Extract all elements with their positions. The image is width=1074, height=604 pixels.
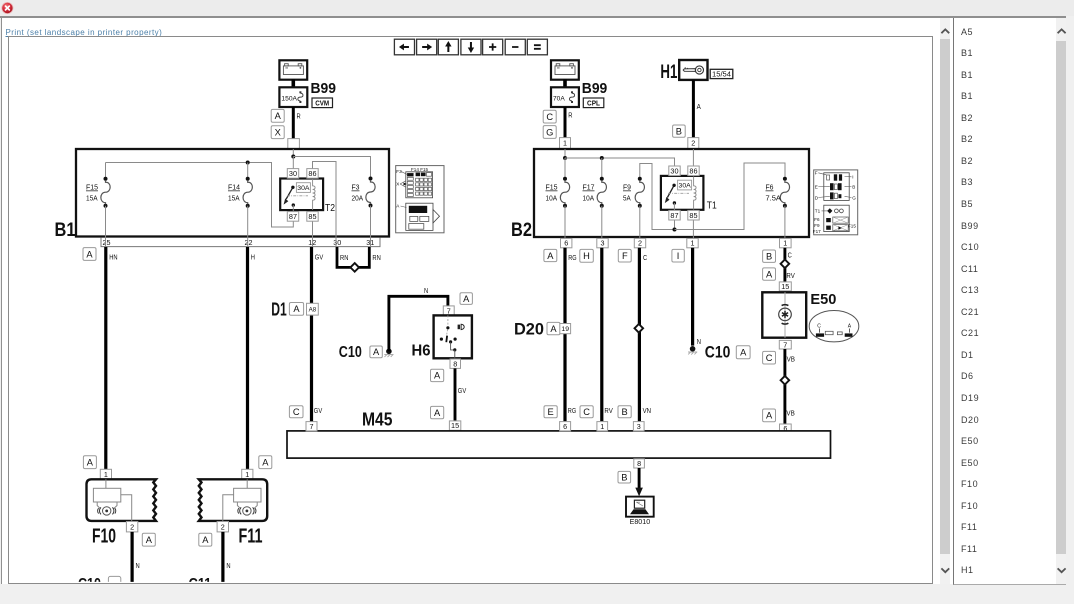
svg-text:F: F bbox=[622, 251, 628, 261]
megafuse 150A B99 bbox=[279, 87, 307, 107]
fuse F14 15A bbox=[228, 163, 252, 247]
svg-text:7: 7 bbox=[783, 340, 787, 349]
svg-text:30: 30 bbox=[333, 238, 341, 247]
svg-text:C: C bbox=[583, 407, 590, 417]
svg-text:N: N bbox=[424, 288, 428, 295]
svg-text:GV: GV bbox=[458, 388, 467, 395]
svg-text:GV: GV bbox=[314, 408, 323, 415]
svg-text:A: A bbox=[202, 535, 209, 545]
svg-text:RN: RN bbox=[372, 255, 380, 262]
connector A (F10 bottom) bbox=[142, 533, 155, 546]
pin 7 E50 bbox=[779, 340, 791, 349]
svg-text:30: 30 bbox=[289, 169, 297, 178]
svg-text:25: 25 bbox=[103, 238, 111, 247]
main diagram scrollbar bbox=[940, 18, 950, 585]
svg-text:C11: C11 bbox=[189, 576, 212, 593]
svg-text:30A: 30A bbox=[297, 185, 310, 192]
connector B (F6 wire) bbox=[763, 250, 776, 262]
svg-text:I: I bbox=[852, 174, 853, 179]
blower motor E50 bbox=[762, 292, 836, 338]
wire relay 86 to pin 30 bbox=[313, 162, 337, 247]
wire battery to fuse B99 bbox=[291, 80, 295, 88]
relay T1 bbox=[661, 166, 717, 220]
svg-text:2: 2 bbox=[130, 522, 134, 531]
svg-text:F9: F9 bbox=[623, 185, 631, 192]
pin 6 M45 bbox=[560, 422, 571, 431]
svg-text:F11: F11 bbox=[239, 525, 263, 547]
fuse F9 5A bbox=[623, 177, 644, 240]
connector A (E50 above) bbox=[763, 268, 776, 280]
svg-text:G: G bbox=[852, 195, 856, 200]
svg-text:F14: F14 bbox=[228, 185, 240, 192]
connector A (C10 right) bbox=[736, 346, 750, 359]
svg-text:F17: F17 bbox=[813, 229, 821, 234]
svg-text:I: I bbox=[677, 251, 680, 261]
svg-text:1: 1 bbox=[245, 470, 249, 479]
svg-text:X: X bbox=[396, 182, 399, 187]
svg-text:5A: 5A bbox=[623, 196, 631, 203]
svg-text:1: 1 bbox=[600, 422, 604, 431]
svg-text:T2: T2 bbox=[325, 203, 335, 214]
battery G (left) bbox=[279, 60, 307, 79]
svg-text:C: C bbox=[293, 407, 300, 417]
wire N from C10 to H6 pin 7 bbox=[389, 288, 448, 351]
pin 1 B2 (F6 branch) bbox=[780, 238, 792, 247]
ground point C10 (right) bbox=[688, 346, 697, 355]
wire battery to fuse B99 right bbox=[563, 80, 567, 88]
svg-text:86: 86 bbox=[689, 166, 697, 175]
connector E (M45 pin6) bbox=[544, 406, 557, 418]
svg-text:H6: H6 bbox=[412, 342, 431, 359]
svg-text:B99: B99 bbox=[582, 80, 608, 97]
toolbar pan/zoom buttons bbox=[394, 39, 547, 55]
svg-text:D20: D20 bbox=[514, 320, 544, 339]
connector G (B99 right) bbox=[543, 126, 556, 139]
wire H1 to relay 86/85 to pin 1 bbox=[692, 149, 694, 240]
svg-text:F15: F15 bbox=[546, 185, 558, 192]
wire C/VN pin2 to M45 pin 3 with splice bbox=[635, 248, 652, 421]
svg-text:CPL: CPL bbox=[587, 100, 601, 107]
svg-text:1: 1 bbox=[783, 239, 787, 248]
wire A from H1 to B2 pin 2 bbox=[693, 80, 701, 139]
svg-text:E50: E50 bbox=[810, 292, 836, 308]
svg-text:B: B bbox=[852, 184, 855, 189]
svg-text:C: C bbox=[766, 353, 773, 363]
svg-text:A: A bbox=[463, 294, 470, 304]
E50 connector face view bbox=[809, 311, 859, 342]
svg-text:3: 3 bbox=[637, 422, 641, 431]
svg-text:C10: C10 bbox=[78, 576, 101, 593]
svg-text:1: 1 bbox=[104, 470, 108, 479]
diagnostic connector E8010 bbox=[626, 497, 654, 526]
svg-text:HN: HN bbox=[109, 255, 117, 262]
svg-text:RV: RV bbox=[786, 273, 795, 280]
fuse F17 10A bbox=[583, 158, 607, 240]
svg-text:2: 2 bbox=[221, 522, 225, 531]
ground C10 (bottom, clipped) bbox=[78, 576, 121, 593]
wire feed to relay 30 bbox=[292, 157, 294, 188]
fuse F15 15A bbox=[86, 163, 110, 247]
svg-text:6: 6 bbox=[564, 239, 568, 248]
connector H (B2 pin3) bbox=[580, 249, 594, 262]
svg-text:A: A bbox=[766, 269, 773, 279]
svg-text:10A: 10A bbox=[583, 196, 595, 203]
wire relay 85 to pin 12 bbox=[312, 221, 314, 247]
svg-text:1: 1 bbox=[563, 139, 567, 148]
svg-text:VN: VN bbox=[643, 408, 651, 415]
wire relay 87 to F9 and F6 bbox=[640, 163, 785, 232]
svg-text:6: 6 bbox=[563, 422, 567, 431]
pin 7 M45 bbox=[306, 422, 317, 431]
svg-text:H: H bbox=[251, 255, 255, 262]
svg-text:30: 30 bbox=[670, 166, 678, 175]
wire GV pin 12 bbox=[312, 247, 324, 422]
connector A (H6 top) bbox=[460, 293, 472, 305]
wire N from F11 to C11 bbox=[223, 532, 231, 583]
svg-text:A: A bbox=[766, 411, 773, 421]
svg-text:A: A bbox=[547, 251, 554, 261]
svg-text:C: C bbox=[788, 253, 792, 260]
svg-text:F9: F9 bbox=[814, 223, 820, 228]
svg-text:E: E bbox=[815, 184, 818, 189]
svg-text:A: A bbox=[697, 104, 701, 111]
connector C (E50 below) bbox=[763, 351, 776, 364]
svg-text:F: F bbox=[815, 170, 818, 175]
pin 2 B2 top bbox=[688, 138, 699, 149]
connector F (B2 pin2) bbox=[618, 249, 631, 262]
wire GV from H6 to M45 pin 15 bbox=[455, 368, 466, 421]
svg-text:F3: F3 bbox=[352, 185, 360, 192]
wire R from B99 to B2 pin 1 bbox=[565, 107, 572, 139]
wire feed to F3 bbox=[293, 157, 370, 179]
svg-text:RN: RN bbox=[340, 255, 348, 262]
svg-text:B1: B1 bbox=[55, 220, 76, 241]
wire HN pin 25 bbox=[106, 247, 118, 469]
ignition switch H1 bbox=[660, 60, 707, 83]
svg-text:7: 7 bbox=[447, 306, 451, 315]
pin 1 F10 bbox=[100, 469, 111, 479]
wire R from B99 to B1 bbox=[292, 107, 295, 140]
svg-text:R: R bbox=[297, 114, 301, 121]
wire RN pins 30-31 with splice bbox=[337, 247, 381, 272]
connector A (C10 left) bbox=[370, 346, 382, 358]
connector B (M45 bottom) bbox=[618, 471, 631, 483]
svg-text:85: 85 bbox=[689, 211, 697, 220]
svg-text:B2: B2 bbox=[511, 220, 532, 241]
inset legend B1 (fusebox layout) bbox=[396, 166, 444, 233]
wire VB from E50 to M45 pin 6 with splice bbox=[781, 349, 796, 424]
fuse F3 20A bbox=[352, 177, 376, 247]
svg-text:A: A bbox=[87, 458, 94, 468]
svg-text:A: A bbox=[146, 535, 153, 545]
svg-text:C10: C10 bbox=[705, 343, 731, 362]
pin 1 F11 bbox=[242, 469, 253, 479]
svg-text:C: C bbox=[546, 112, 553, 122]
svg-text:2: 2 bbox=[638, 239, 642, 248]
svg-text:87: 87 bbox=[289, 212, 297, 221]
pin 3 B2 bbox=[597, 238, 608, 247]
svg-text:70A: 70A bbox=[553, 95, 565, 102]
svg-text:A: A bbox=[275, 111, 282, 121]
label CPL bbox=[583, 98, 604, 108]
connector C (M45 pin7) bbox=[289, 406, 303, 418]
svg-text:A: A bbox=[86, 249, 93, 259]
svg-text:N: N bbox=[136, 563, 140, 570]
svg-text:7: 7 bbox=[310, 422, 314, 431]
connector C (M45 pin1) bbox=[580, 406, 593, 418]
svg-text:E: E bbox=[547, 407, 553, 417]
svg-text:D1: D1 bbox=[271, 300, 287, 320]
svg-text:M45: M45 bbox=[362, 410, 393, 430]
svg-text:F15: F15 bbox=[86, 185, 98, 192]
svg-text:B: B bbox=[621, 407, 627, 417]
pin (B1 top entry) bbox=[288, 139, 300, 150]
connector A (B2 pin6) bbox=[544, 249, 557, 261]
connector D1 (A / A8) bbox=[271, 300, 318, 320]
svg-text:B: B bbox=[766, 252, 772, 262]
pin 2 F10 bbox=[126, 522, 137, 532]
svg-text:B: B bbox=[676, 126, 682, 136]
svg-text:7.5A: 7.5A bbox=[766, 196, 782, 203]
pin 1 B2 bottom bbox=[687, 238, 698, 247]
wire N from F10 to C10 bbox=[132, 532, 140, 583]
svg-text:E8010: E8010 bbox=[630, 517, 651, 526]
connector A (F11 top) bbox=[259, 456, 272, 469]
pin 7 H6 bbox=[443, 306, 454, 316]
svg-text:15A: 15A bbox=[86, 196, 98, 203]
junction unit M45 bbox=[287, 410, 831, 459]
close button bbox=[0, 0, 20, 20]
svg-text:19: 19 bbox=[561, 326, 569, 333]
fusebox B2 bbox=[511, 149, 809, 241]
svg-text:86: 86 bbox=[308, 169, 316, 178]
connector C (B99 right) bbox=[543, 110, 556, 123]
svg-text:VB: VB bbox=[786, 411, 795, 418]
connector A (above M45 pin 15) bbox=[431, 406, 444, 418]
svg-text:10A: 10A bbox=[546, 196, 558, 203]
svg-text:15: 15 bbox=[781, 282, 789, 291]
wire H pin 22 bbox=[248, 247, 256, 469]
svg-text:15: 15 bbox=[451, 421, 459, 430]
svg-text:RG: RG bbox=[568, 408, 576, 415]
ground C10 (left of H6) bbox=[339, 344, 362, 361]
svg-text:RG: RG bbox=[568, 255, 576, 262]
svg-text:A8: A8 bbox=[309, 307, 317, 314]
svg-text:A: A bbox=[434, 408, 441, 418]
svg-text:T1: T1 bbox=[707, 201, 717, 212]
connector A (F11 bottom) bbox=[199, 533, 212, 546]
wire RV pin3 to M45 pin 1 bbox=[602, 248, 613, 421]
pin 1 M45 bbox=[597, 422, 608, 431]
svg-text:B: B bbox=[621, 473, 627, 483]
connector A (H6 below) bbox=[431, 369, 444, 381]
fusebox body computer B1 bbox=[55, 149, 390, 241]
node feed B2 pin 1 bbox=[563, 149, 567, 160]
svg-text:15A: 15A bbox=[228, 196, 240, 203]
pin 6 M45 (right) bbox=[780, 424, 792, 433]
svg-text:CVM: CVM bbox=[315, 100, 329, 107]
megafuse 70A B99 bbox=[551, 87, 579, 107]
connector A (B1 bottom) bbox=[83, 248, 96, 261]
svg-text:X: X bbox=[275, 128, 281, 138]
svg-text:A: A bbox=[293, 304, 300, 314]
svg-text:A: A bbox=[373, 347, 380, 357]
B1 connector strip bbox=[101, 238, 380, 247]
side lamp F11 bbox=[199, 479, 267, 547]
svg-text:H1: H1 bbox=[660, 62, 677, 83]
svg-text:1: 1 bbox=[691, 239, 695, 248]
svg-text:F6: F6 bbox=[814, 217, 820, 222]
connector A (M45 pin6 right) bbox=[763, 409, 776, 422]
connector A (F10 top) bbox=[83, 456, 96, 469]
lighting switch H6 bbox=[412, 315, 472, 359]
svg-text:F15: F15 bbox=[848, 224, 856, 229]
pin 2 F11 bbox=[217, 522, 228, 532]
pin 15 E50 bbox=[779, 282, 791, 291]
svg-text:F10: F10 bbox=[92, 525, 116, 547]
svg-text:VB: VB bbox=[787, 357, 796, 364]
svg-text:N: N bbox=[697, 339, 701, 346]
wire C/RV from B2 pin1 to E50 pin 15 bbox=[781, 248, 795, 282]
pin 1 B2 top bbox=[560, 138, 571, 149]
fuse F15 10A (B2) bbox=[546, 158, 570, 240]
svg-text:30A: 30A bbox=[679, 183, 692, 190]
connector B (M45 pin3) bbox=[618, 406, 631, 418]
svg-text:A: A bbox=[550, 324, 557, 334]
component list panel bbox=[953, 18, 1066, 585]
list scrollbar bbox=[1056, 18, 1066, 585]
connector D20 pin 19 bbox=[514, 320, 571, 339]
svg-text:F17: F17 bbox=[583, 185, 595, 192]
wire to E8010 with arrow bbox=[635, 468, 643, 496]
svg-text:87: 87 bbox=[670, 211, 678, 220]
svg-text:A: A bbox=[434, 371, 441, 381]
node feed B1 (junction from B99) bbox=[291, 149, 295, 159]
connector X (B99 left) bbox=[271, 126, 284, 139]
svg-text:A: A bbox=[740, 348, 747, 358]
wire feed to relay 30 (B2) bbox=[565, 156, 675, 185]
svg-text:T1: T1 bbox=[815, 209, 821, 214]
svg-text:N: N bbox=[226, 563, 230, 570]
side lamp F10 bbox=[87, 479, 157, 547]
connector B (H1 wire) bbox=[673, 125, 686, 137]
connector A (B99 left) bbox=[271, 109, 284, 122]
svg-text:C: C bbox=[643, 255, 647, 262]
svg-text:8: 8 bbox=[453, 359, 457, 368]
svg-text:GV: GV bbox=[315, 255, 324, 262]
label 15/54 bbox=[710, 69, 733, 78]
svg-text:2: 2 bbox=[691, 139, 695, 148]
svg-text:85: 85 bbox=[308, 212, 316, 221]
svg-text:A: A bbox=[262, 458, 269, 468]
pin 8 H6 bbox=[450, 359, 461, 368]
svg-text:G: G bbox=[546, 127, 553, 137]
pin 2 B2 bottom bbox=[634, 238, 645, 247]
inset legend B2 (relay/fuse layout) bbox=[813, 170, 858, 235]
wire N pin1 to ground C10 bbox=[693, 248, 701, 346]
wire relay 87 to F15/F14 feed bbox=[106, 161, 294, 228]
pin 15 M45 bbox=[449, 421, 460, 430]
svg-text:R: R bbox=[568, 113, 572, 120]
pin 6 B2 bbox=[561, 238, 572, 247]
svg-text:15/54: 15/54 bbox=[712, 70, 731, 79]
svg-text:H: H bbox=[583, 251, 590, 261]
svg-text:RV: RV bbox=[604, 408, 613, 415]
wire RG pin6 to M45 pin 6 bbox=[565, 248, 577, 421]
svg-text:B99: B99 bbox=[311, 80, 337, 97]
fuse F6 7.5A bbox=[766, 177, 790, 240]
svg-text:22: 22 bbox=[245, 238, 253, 247]
svg-text:3: 3 bbox=[601, 239, 605, 248]
connector I (B2 pin1) bbox=[672, 249, 684, 262]
relay T2 bbox=[280, 169, 335, 222]
svg-text:C10: C10 bbox=[339, 344, 362, 361]
pin 8 M45 bottom bbox=[634, 459, 645, 468]
svg-text:F6: F6 bbox=[766, 185, 774, 192]
svg-text:8: 8 bbox=[637, 459, 641, 468]
pin 3 M45 bbox=[633, 422, 644, 431]
battery G (right) bbox=[551, 60, 579, 79]
svg-text:20A: 20A bbox=[352, 196, 364, 203]
ground point C10 bbox=[384, 349, 393, 358]
label CVM bbox=[312, 98, 333, 108]
svg-text:150A: 150A bbox=[281, 95, 297, 102]
